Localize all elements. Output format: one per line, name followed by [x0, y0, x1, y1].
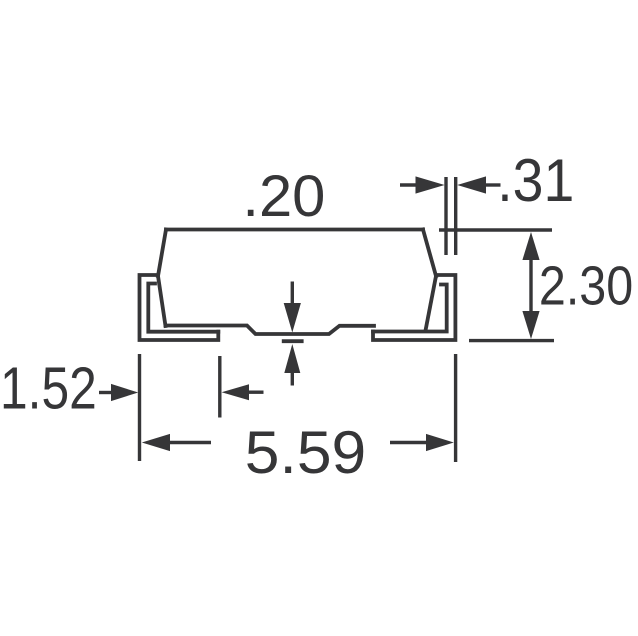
- body left lower slant: [158, 276, 166, 326]
- dim 2.30 bottom extension line: [469, 339, 554, 342]
- dim 2.30 vertical line: [529, 259, 532, 311]
- dim 1.52 right arrowhead: [222, 384, 249, 400]
- dim 1.52 right arrow tail: [248, 391, 264, 394]
- dim 1.52 left arrowhead: [111, 384, 138, 401]
- dim .20 up arrowhead: [284, 344, 300, 373]
- dim .31 left arrow tail: [400, 183, 417, 186]
- right lead outer contour: [373, 275, 455, 340]
- dim .20 up-arrow tail: [291, 372, 294, 386]
- right lead inner contour: [373, 285, 447, 332]
- dim 1.52 left arrow tail: [99, 391, 112, 394]
- dim 1.52 right extension line: [218, 356, 221, 418]
- dim 5.59 right arrowhead: [426, 434, 454, 451]
- dim 2.30 down arrowhead: [522, 311, 539, 339]
- left lead outer contour: [140, 275, 219, 340]
- dim 1.52/5.59 shared left extension line: [138, 354, 141, 461]
- body top edge: [166, 228, 423, 232]
- body left upper slant: [158, 230, 166, 277]
- dim 5.59 left arrowhead: [142, 434, 170, 451]
- svg-text:2.30: 2.30: [539, 255, 633, 317]
- dim 5.59 right extension line: [454, 354, 457, 462]
- dim .31 extension line B: [454, 177, 457, 255]
- dim 2.30 top extension line: [439, 228, 552, 231]
- dim .31 left arrowhead: [416, 176, 445, 193]
- dim .20 down-arrow tail: [291, 282, 294, 306]
- svg-text:1.52: 1.52: [0, 356, 97, 422]
- svg-text:.20: .20: [242, 164, 325, 229]
- body right upper slant: [423, 230, 436, 277]
- dim 5.59 right line segment: [390, 441, 427, 444]
- dim .31 right arrow tail: [485, 183, 501, 186]
- dim .31 extension line A: [444, 177, 447, 255]
- dim .20 down arrowhead: [284, 303, 301, 333]
- dim 2.30 up arrowhead: [522, 232, 539, 260]
- body bottom edge with center dip: [166, 326, 375, 335]
- body right lower slant: [426, 276, 437, 331]
- svg-text:5.59: 5.59: [245, 419, 366, 486]
- left lead inner contour: [148, 284, 218, 332]
- dim .31 right arrowhead: [457, 176, 486, 193]
- dim 5.59 left line segment: [169, 441, 211, 444]
- svg-text:.31: .31: [497, 147, 574, 214]
- seating plane tick: [284, 339, 302, 343]
